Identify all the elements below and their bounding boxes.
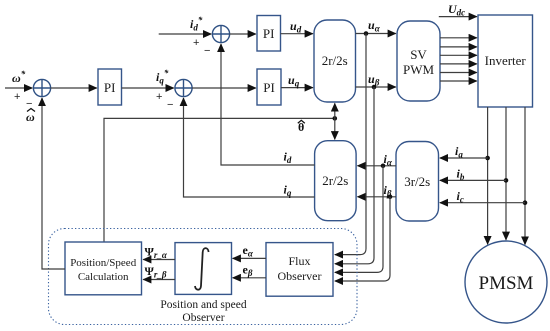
wires: six PWM gate signals to inverter <box>440 37 477 39</box>
svg-text:PI: PI <box>263 80 275 95</box>
svg-text:id: id <box>284 150 292 166</box>
junction dot ia <box>485 156 490 161</box>
svg-text:ic: ic <box>457 189 464 205</box>
wire: iq feedback to J2 <box>184 98 315 197</box>
block 2r/2s inverse park transform <box>314 20 356 102</box>
block 2r/2s park transform <box>315 141 357 221</box>
wire: i_alpha down to flux observer <box>335 166 383 273</box>
svg-text:2r/2s: 2r/2s <box>322 173 348 188</box>
junction dot ib <box>504 178 509 183</box>
svg-text:+: + <box>14 91 20 103</box>
svg-text:Udc: Udc <box>448 2 465 18</box>
wire: phase c from inverter to PMSM <box>524 107 526 245</box>
block 3r/2s clarke transform <box>396 142 439 222</box>
svg-text:PMSM: PMSM <box>479 273 534 294</box>
wire: PI speed out to iq summing junction <box>122 87 174 89</box>
svg-text:ud: ud <box>290 19 302 35</box>
svg-text:−: − <box>204 45 210 57</box>
wire: ud from PI to 2r/2s <box>281 33 313 35</box>
junction dot i_beta <box>388 195 393 200</box>
svg-text:iβ: iβ <box>384 183 392 199</box>
svg-text:iα: iα <box>384 152 393 168</box>
svg-text:eβ: eβ <box>243 263 253 279</box>
junction dot u_alpha <box>364 31 369 36</box>
block SV PWM <box>397 21 440 101</box>
wire: psi_r_beta to position calc <box>143 279 175 281</box>
svg-text:+: + <box>193 37 199 49</box>
wire: uq from PI to 2r/2s <box>281 87 313 89</box>
block Flux Observer <box>266 243 333 297</box>
wire: ic measurement to 3r/2s <box>440 202 525 204</box>
wire: u_beta down to flux observer <box>335 87 374 264</box>
svg-text:iq: iq <box>284 183 292 199</box>
wire: ib measurement to 3r/2s <box>440 179 506 181</box>
svg-text:PI: PI <box>263 26 275 41</box>
wire: i_alpha from 3r/2s to 2r/2s <box>358 165 397 167</box>
svg-text:Flux: Flux <box>288 254 310 268</box>
block Inverter <box>478 15 533 107</box>
svg-text:Position/Speed: Position/Speed <box>70 257 137 269</box>
svg-text:ib: ib <box>457 167 465 183</box>
summing junction J3 (id) <box>212 25 229 42</box>
block Position/Speed Calculation <box>65 242 142 295</box>
motor PMSM <box>465 241 547 323</box>
wire: theta-hat up arrow into 2r/2s top block <box>334 103 336 118</box>
summing junction J2 (iq) <box>175 79 192 96</box>
wire: omega-hat feedback to J1 <box>42 98 65 269</box>
wire: theta-hat from position calc to transforms <box>104 118 335 242</box>
svg-text:PWM: PWM <box>403 62 435 77</box>
junction dot i_alpha <box>381 164 386 169</box>
svg-text:2r/2s: 2r/2s <box>322 53 348 68</box>
wire: i_beta from 3r/2s to 2r/2s <box>358 196 397 198</box>
svg-text:Inverter: Inverter <box>485 53 527 68</box>
wire: omega* input to speed summing junction <box>5 87 32 89</box>
svg-text:PI: PI <box>104 80 116 95</box>
block integrator <box>175 243 232 295</box>
wire: u_alpha down to flux observer <box>335 34 366 255</box>
svg-text:+: + <box>156 91 162 103</box>
PI block speed controller <box>98 69 122 105</box>
wire: id feedback to J3 <box>221 44 315 165</box>
wire: J1 to PI speed controller <box>51 87 97 89</box>
wire: phase b from inverter to PMSM <box>505 107 507 240</box>
svg-text:id*: id* <box>190 15 203 33</box>
svg-text:3r/2s: 3r/2s <box>404 174 430 189</box>
svg-text:ω: ω <box>26 110 35 124</box>
svg-text:SV: SV <box>410 47 427 62</box>
junction dot ic <box>523 200 528 205</box>
junction dot u_beta <box>372 85 377 90</box>
summing junction J1 (speed) <box>33 79 50 96</box>
wire: J2 to PI q-axis controller <box>192 87 256 89</box>
svg-text:Ψr_β: Ψr_β <box>145 264 167 280</box>
svg-text:ia: ia <box>455 144 463 160</box>
wire: psi_r_alpha to position calc <box>143 259 175 261</box>
svg-text:Ψr_α: Ψr_α <box>145 245 168 261</box>
wire: theta-hat down arrow into 2r/2s bottom block <box>334 118 336 139</box>
wire: u_beta to SV PWM <box>356 86 396 88</box>
svg-text:iq*: iq* <box>156 68 169 86</box>
wire: i_beta down to flux observer <box>335 197 390 281</box>
wire: id* input to id summing junction <box>159 33 212 35</box>
PI block d-axis current controller <box>257 16 281 52</box>
wire: u_alpha to SV PWM <box>356 33 396 35</box>
svg-text:Observer: Observer <box>182 312 224 324</box>
svg-text:Observer: Observer <box>278 269 322 283</box>
svg-text:Calculation: Calculation <box>78 271 129 283</box>
wire: J3 to PI d-axis controller <box>230 33 256 35</box>
wire: Udc into inverter <box>439 16 477 18</box>
svg-text:ω*: ω* <box>12 69 26 85</box>
svg-text:Position and speed: Position and speed <box>160 299 246 311</box>
junction dot theta <box>333 116 338 121</box>
dashed observer boundary <box>49 229 358 325</box>
wire: e_beta from flux observer to integrator <box>233 277 266 279</box>
PI block q-axis current controller <box>257 69 281 105</box>
svg-text:uq: uq <box>288 73 300 89</box>
svg-text:eα: eα <box>243 243 254 259</box>
svg-text:uα: uα <box>368 18 381 34</box>
wire: phase a from inverter to PMSM <box>487 107 489 244</box>
wire: e_alpha from flux observer to integrator <box>233 257 266 259</box>
svg-text:uβ: uβ <box>368 72 380 88</box>
svg-text:−: − <box>167 99 173 111</box>
wire: ia measurement to 3r/2s <box>440 157 488 159</box>
